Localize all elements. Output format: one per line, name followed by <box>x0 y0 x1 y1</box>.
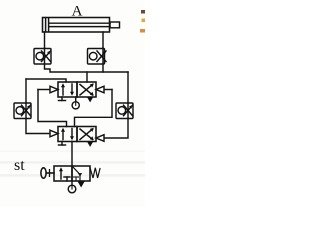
FC4 pass line <box>127 103 129 119</box>
FC2 pass line <box>102 48 104 64</box>
valve V3 right box <box>77 127 96 142</box>
V1 supply source circle <box>68 185 76 193</box>
wire V3 supply from st valve <box>71 142 73 167</box>
cylinder A body <box>43 18 110 33</box>
valve V2 (middle 5/2) left box <box>58 82 77 97</box>
wire V3 left output up to V2 left pilot <box>38 90 67 127</box>
V2 supply source circle <box>72 102 79 109</box>
V2 left box up arrow <box>62 86 64 96</box>
V1 exhaust triangle <box>78 182 85 188</box>
cylinder A piston <box>45 18 47 32</box>
valve V3 (lower 5/2) left box <box>58 127 77 142</box>
valve V2 right box <box>77 82 96 97</box>
valve V1 (st 3/2) left box <box>54 166 72 181</box>
wire left feedback to V3 left pilot <box>26 119 50 134</box>
wire right feedback to V3 right pilot <box>104 119 128 139</box>
V2 right pilot triangle <box>104 89 112 91</box>
flow control FC2 (under cylinder right) body <box>88 49 105 65</box>
wire cylinder left port down <box>44 32 46 48</box>
V1 right box blocked T <box>75 177 77 181</box>
V3 right box cross flow <box>80 129 93 140</box>
FC2 throttle cross <box>97 51 106 62</box>
V3 left pilot triangle <box>50 130 58 137</box>
label A <box>72 4 83 20</box>
cylinder A rod <box>49 22 110 24</box>
FC1 pass line <box>44 48 46 64</box>
V1 supply stub <box>71 181 73 186</box>
FC4 throttle cross <box>124 105 133 116</box>
wire right feedback drop <box>127 72 129 103</box>
edge color mark 3 <box>140 29 145 33</box>
V3 right pilot triangle <box>96 135 104 142</box>
edge color mark 2 <box>142 19 146 23</box>
V2 supply stub <box>75 97 77 102</box>
FC4 check circle <box>118 107 126 115</box>
FC3 throttle cross <box>22 105 31 116</box>
V2 left box down arrow <box>71 84 73 94</box>
flow control FC4 (right side) body <box>116 103 133 119</box>
V1 left box up arrow <box>60 170 62 180</box>
FC3 check circle <box>16 107 24 115</box>
edge color mark 1 <box>141 10 145 14</box>
V1 push button <box>41 168 46 178</box>
V3 exhaust T left <box>61 142 63 146</box>
wire lower horizontal to valve A port <box>26 79 66 82</box>
wire right cylinder branch up <box>102 64 104 72</box>
wire left working line (FC1 to valve A port with jog) <box>45 64 129 72</box>
wire valve B port drop <box>86 72 88 82</box>
FC2 check circle <box>89 52 97 60</box>
svg-text:st: st <box>14 157 25 174</box>
V3 left box down arrow <box>71 129 73 139</box>
V2 right box cross flow <box>80 85 93 96</box>
flow control FC1 (under cylinder left) body <box>34 49 51 65</box>
FC3 pass line <box>25 103 27 119</box>
valve V1 right box <box>72 166 90 181</box>
V1 right box exhaust path <box>73 167 81 182</box>
label st <box>14 157 25 174</box>
V1 spring <box>90 168 100 179</box>
FC1 check circle <box>36 52 44 60</box>
V2 exhaust T left <box>61 97 63 101</box>
FC1 throttle cross <box>42 51 51 62</box>
V3 exhaust triangle right <box>87 141 94 147</box>
V2 exhaust triangle right <box>87 97 94 103</box>
V3 left box up arrow <box>62 130 64 140</box>
wire V3 right output up to V2 right pilot <box>75 90 113 127</box>
V1 left box blocked T <box>66 177 68 181</box>
wire left feedback drop <box>25 79 27 103</box>
V2 left pilot triangle <box>38 89 50 91</box>
wire cylinder right port down <box>102 32 104 48</box>
flow control FC3 (left side) body <box>14 103 31 119</box>
